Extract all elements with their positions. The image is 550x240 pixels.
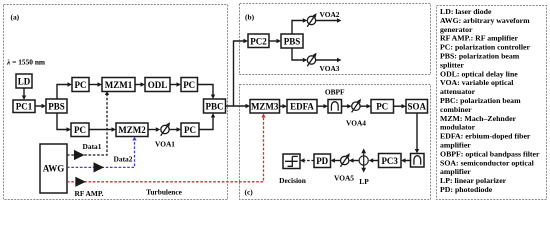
- wire LD to PC1: [22, 88, 26, 100]
- svg-text:SOA: semiconductor optical: SOA: semiconductor optical: [440, 158, 535, 167]
- svg-text:PBS: polarization beam: PBS: polarization beam: [440, 52, 520, 61]
- wire VOA2 output: [316, 18, 342, 22]
- svg-text:PBS: PBS: [284, 36, 301, 46]
- svg-text:PC: PC: [183, 80, 195, 90]
- wire PC to MZM2: [89, 127, 116, 131]
- semiconductor optical amplifier SOA: [406, 100, 428, 114]
- svg-text:λ = 1550 nm: λ = 1550 nm: [6, 58, 46, 67]
- svg-text:ODL: optical delay line: ODL: optical delay line: [440, 69, 518, 78]
- Data1 dashed line: [67, 91, 109, 155]
- svg-text:ODL: ODL: [148, 80, 168, 90]
- svg-text:VOA3: VOA3: [320, 64, 340, 73]
- svg-text:PC1: PC1: [16, 102, 33, 112]
- polarization beam splitter PBS: [46, 99, 67, 113]
- svg-text:EDFA: EDFA: [290, 102, 314, 112]
- svg-text:PBC: polarization beam: PBC: polarization beam: [440, 96, 521, 105]
- wire PC3 to LP: [369, 158, 379, 162]
- wire VOA1 to PC: [169, 127, 181, 131]
- amplifier triangle Data2: [94, 162, 105, 172]
- wire ODL to PC: [170, 82, 181, 86]
- variable optical attenuator VOA2: [307, 13, 316, 27]
- svg-text:EDFA: erbium-doped fiber: EDFA: erbium-doped fiber: [440, 132, 531, 141]
- wire PBS up to VOA2: [292, 18, 307, 34]
- svg-text:(b): (b): [245, 13, 255, 22]
- decision circuit: [283, 154, 300, 169]
- svg-text:AWG: AWG: [43, 164, 65, 174]
- svg-text:amplifier: amplifier: [440, 167, 471, 176]
- amplifier triangle Data1: [74, 150, 85, 160]
- polarization beam splitter PBS (b): [281, 34, 303, 48]
- svg-text:PBC: PBC: [206, 101, 224, 111]
- svg-text:VOA5: VOA5: [334, 173, 354, 182]
- svg-text:PC: PC: [184, 125, 196, 135]
- variable optical attenuator VOA5: [340, 153, 349, 167]
- polarization controller PC (lower row): [71, 123, 89, 137]
- wire PC2 to PBS: [269, 39, 281, 43]
- svg-text:PC: PC: [75, 80, 87, 90]
- svg-text:LD: LD: [18, 77, 31, 87]
- svg-text:amplifier: amplifier: [440, 141, 471, 150]
- svg-text:PC2: PC2: [250, 36, 267, 46]
- optical filter (before PC3): [411, 154, 425, 168]
- wire EDFA to OBPF: [317, 104, 328, 108]
- svg-text:MZM2: MZM2: [118, 125, 146, 135]
- wire VOA5 to PD: [331, 158, 341, 162]
- polarization controller PC3: [379, 154, 402, 168]
- svg-text:LP: linear polarizer: LP: linear polarizer: [440, 176, 507, 185]
- svg-text:AWG: arbitrary waveform: AWG: arbitrary waveform: [440, 16, 530, 25]
- svg-text:Data2: Data2: [114, 155, 133, 164]
- svg-text:Decision: Decision: [279, 176, 306, 185]
- linear polarizer LP: [359, 148, 368, 172]
- svg-text:PBS: PBS: [48, 101, 65, 111]
- svg-text:PC: PC: [376, 102, 388, 112]
- wire PBS down to VOA3: [292, 48, 307, 62]
- svg-text:RF AMP.: RF AMP.: [74, 189, 103, 198]
- Mach-Zehnder modulator MZM3: [250, 100, 280, 114]
- svg-text:OBPF: OBPF: [325, 88, 345, 97]
- laser diode LD: [16, 74, 32, 88]
- photodiode PD: [314, 154, 331, 168]
- wire PC to SOA: [394, 104, 407, 108]
- wire OBPF to VOA4: [342, 104, 352, 108]
- svg-text:VOA2: VOA2: [320, 10, 340, 19]
- svg-text:PC: PC: [74, 125, 86, 135]
- svg-text:OBPF: optical bandpass filter: OBPF: optical bandpass filter: [440, 149, 540, 158]
- svg-text:generator: generator: [440, 25, 473, 34]
- svg-text:LP: LP: [359, 177, 369, 186]
- wire VOA4 to PC: [360, 104, 371, 108]
- wire SOA down to filter: [415, 113, 419, 154]
- svg-text:combiner: combiner: [440, 105, 472, 114]
- svg-text:(a): (a): [11, 13, 20, 22]
- wire filter to PC3: [401, 158, 411, 162]
- polarization controller PC2: [248, 34, 269, 48]
- svg-text:RF AMP.: RF amplifier: RF AMP.: RF amplifier: [440, 34, 518, 43]
- panel (b) dashed border: [240, 4, 431, 75]
- variable optical attenuator VOA4: [352, 99, 361, 113]
- wire PBC to MZM3: [226, 104, 251, 108]
- wire MZM1 to ODL: [135, 82, 145, 86]
- erbium-doped fiber amplifier EDFA: [287, 100, 317, 114]
- wire PC to MZM1: [89, 82, 102, 86]
- svg-text:VOA1: VOA1: [155, 140, 175, 149]
- svg-text:LD: laser diode: LD: laser diode: [440, 7, 492, 16]
- polarization controller PC (c): [371, 100, 394, 114]
- wire MZM3 to EDFA: [280, 104, 288, 108]
- svg-text:Turbulence: Turbulence: [146, 188, 183, 197]
- dashed wire PD to Decision: [300, 158, 314, 162]
- svg-text:VOA4: VOA4: [346, 119, 366, 128]
- svg-text:PD: photodiode: PD: photodiode: [440, 185, 493, 194]
- svg-text:PC: polarization controller: PC: polarization controller: [440, 43, 530, 52]
- svg-text:Data1: Data1: [83, 142, 102, 151]
- svg-text:SOA: SOA: [407, 102, 426, 112]
- optical bandpass filter OBPF: [328, 100, 342, 114]
- Data2 dashed blue line: [67, 137, 137, 168]
- svg-text:attenuator: attenuator: [440, 87, 476, 96]
- wire VOA3 output: [316, 58, 342, 62]
- svg-text:MZM3: MZM3: [251, 102, 279, 112]
- Mach-Zehnder modulator MZM1: [102, 78, 135, 92]
- svg-text:MZM1: MZM1: [105, 80, 133, 90]
- svg-text:MZM: Mach–Zehnder: MZM: Mach–Zehnder: [440, 114, 517, 123]
- wire branch up to PC2: [234, 39, 249, 106]
- RF dashed red line to MZM3: [67, 114, 266, 182]
- polarization beam combiner PBC: [204, 99, 226, 113]
- legend box: [437, 6, 547, 200]
- svg-text:PC3: PC3: [381, 156, 398, 166]
- wire PC1 to PBS: [35, 104, 46, 108]
- Mach-Zehnder modulator MZM2: [116, 123, 148, 137]
- svg-text:(c): (c): [245, 188, 254, 197]
- amplifier triangle RF AMP: [75, 177, 86, 187]
- wire PBS down to lower PC: [57, 113, 71, 132]
- svg-text:splitter: splitter: [440, 60, 464, 69]
- svg-text:VOA: variable optical: VOA: variable optical: [440, 78, 514, 87]
- wire PBS up to PC: [57, 82, 72, 99]
- svg-text:PD: PD: [316, 156, 328, 166]
- wire MZM2 to VOA1: [148, 127, 160, 131]
- polarization controller PC (lower right): [181, 123, 199, 137]
- wire PC to PBC bottom: [199, 113, 215, 130]
- legend text: [440, 7, 540, 194]
- wire PC to PBC top: [198, 85, 216, 100]
- optical delay line ODL: [145, 78, 170, 92]
- variable optical attenuator VOA1: [161, 122, 170, 136]
- polarization controller PC (upper row): [72, 78, 89, 92]
- panel (a) dashed border: [4, 5, 228, 200]
- panel (c) dashed border: [240, 85, 431, 200]
- polarization controller PC1: [13, 100, 35, 113]
- svg-text:modulator: modulator: [440, 123, 476, 132]
- polarization controller PC (upper right): [181, 78, 198, 92]
- arbitrary waveform generator AWG: [40, 144, 67, 193]
- wire LP to VOA5: [349, 158, 359, 162]
- variable optical attenuator VOA3: [307, 53, 316, 67]
